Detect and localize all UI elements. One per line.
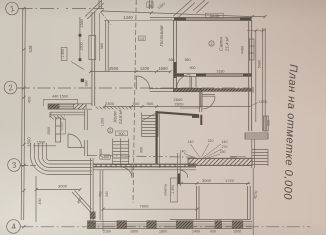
svg-text:900: 900 <box>190 66 196 70</box>
axis line row 3 <box>20 165 36 167</box>
svg-text:1500: 1500 <box>37 141 45 145</box>
svg-text:3: 3 <box>11 160 19 170</box>
svg-text:900: 900 <box>147 101 154 106</box>
right wall window <box>249 39 254 60</box>
bottom dim texts <box>103 230 241 234</box>
svg-text:1400: 1400 <box>192 230 200 234</box>
vertical dashed axis <box>133 0 136 203</box>
svg-text:1200: 1200 <box>101 118 105 126</box>
vestibule pier dark <box>90 212 96 220</box>
svg-text:1: 1 <box>211 42 213 46</box>
salon left wall pier <box>174 62 177 78</box>
top-left chamfer wall <box>85 1 104 20</box>
extension line 580 <box>99 13 101 61</box>
entrance porch left wall <box>99 0 102 9</box>
svg-text:230: 230 <box>220 150 226 154</box>
svg-text:21,4 м²: 21,4 м² <box>225 36 230 52</box>
stair B box 900 <box>116 131 128 136</box>
svg-text:5080: 5080 <box>258 60 262 68</box>
top wall right room dark piers <box>174 18 252 21</box>
vestibule right wall <box>85 110 88 130</box>
axis circle 1 <box>6 2 19 15</box>
hall top door arc <box>136 76 150 90</box>
svg-text:отметка: отметка <box>164 184 168 196</box>
stair A break diagonal <box>142 112 158 121</box>
svg-text:750: 750 <box>99 191 103 197</box>
lower door arc to stair B <box>121 167 132 178</box>
stair right dark wall <box>156 111 158 164</box>
stair wall light face <box>158 113 160 168</box>
wc wall horizontal <box>202 95 215 97</box>
right wall of building <box>249 20 252 131</box>
dark square node <box>81 79 84 82</box>
svg-text:1440: 1440 <box>123 15 133 20</box>
entrance step straight edges <box>31 166 37 190</box>
svg-text:-1.300: -1.300 <box>61 49 65 59</box>
vestibule lower walls <box>68 140 87 156</box>
svg-text:900: 900 <box>210 230 216 234</box>
svg-text:2100: 2100 <box>103 230 111 234</box>
svg-text:900: 900 <box>119 132 125 136</box>
bottom-right room right wall <box>248 186 251 220</box>
bottom wall piers <box>88 221 243 229</box>
dim line 3000 bottom-left <box>36 189 80 191</box>
corridor dark wall top <box>157 112 199 115</box>
svg-text:450: 450 <box>27 96 32 103</box>
wc line <box>180 107 200 109</box>
hatched wall band <box>188 158 252 165</box>
stair B rails <box>113 139 129 165</box>
right dim start ticks <box>247 29 266 32</box>
dim ticks b <box>180 182 250 185</box>
secondary vertical wall <box>106 20 109 72</box>
terrace lower line <box>93 169 196 171</box>
bottom-left vestibule wall A <box>90 158 93 229</box>
mid axis dash row3 right <box>87 155 195 157</box>
salon bottom window inner lines <box>206 75 243 76</box>
svg-text:2: 2 <box>6 83 14 93</box>
svg-text:06: 06 <box>148 4 152 8</box>
porch lower faint line <box>104 19 150 21</box>
hall dimension line <box>104 106 250 108</box>
dim 7000 line <box>103 208 197 210</box>
vestibule hatch <box>50 116 65 120</box>
svg-text:140: 140 <box>222 140 228 144</box>
svg-text:1720: 1720 <box>225 178 235 183</box>
wc wall vertical <box>200 92 202 107</box>
svg-text:240: 240 <box>105 191 109 197</box>
svg-text:4: 4 <box>10 222 18 232</box>
vertical dim line with ticks <box>79 17 81 61</box>
diagonal wall corner <box>72 191 92 212</box>
top wall right room <box>174 18 253 21</box>
dim 1500 with leader right <box>250 100 268 107</box>
svg-text:1450: 1450 <box>157 2 166 11</box>
corridor wall right hatch fill <box>200 89 252 92</box>
axis line row 1 <box>19 8 105 10</box>
wall B lower extension <box>102 220 104 231</box>
callout leaders <box>184 144 222 159</box>
svg-text:440 1500: 440 1500 <box>52 95 68 99</box>
corridor bottom wall dark <box>93 164 196 167</box>
window in central wall <box>89 36 96 60</box>
right window band horizontal <box>245 133 268 139</box>
interior wall hatch right part <box>95 106 133 109</box>
svg-text:7000: 7000 <box>140 203 150 208</box>
dim ext vertical <box>44 99 78 106</box>
elevation box 0.000 rotated <box>60 119 65 134</box>
wc dark stub horizontal <box>192 115 199 118</box>
interior dim ticks <box>89 70 172 73</box>
thick stub wall above room <box>178 174 180 185</box>
svg-text:1800: 1800 <box>159 230 167 234</box>
svg-text:3000: 3000 <box>202 178 212 183</box>
svg-text:2920: 2920 <box>175 102 185 107</box>
corridor wall dark segment <box>174 88 202 91</box>
small dim line2 <box>33 145 56 147</box>
corridor bottom wall ticks <box>96 164 190 166</box>
svg-text:380: 380 <box>85 81 89 87</box>
stair A rails <box>142 112 158 137</box>
corridor wall segment left <box>150 89 174 92</box>
vestibule left window bar <box>56 118 61 142</box>
top-right chamfer diagonal stair <box>174 0 209 19</box>
hall label <box>113 109 124 125</box>
svg-text:1690: 1690 <box>158 66 168 71</box>
dim text 4440 boxed <box>206 13 224 18</box>
right stair treads <box>252 150 268 167</box>
stair B treads <box>113 142 129 165</box>
svg-text:580: 580 <box>100 43 104 49</box>
svg-text:3180: 3180 <box>217 70 225 74</box>
hall number circle <box>108 128 113 133</box>
entrance curved steps <box>31 143 93 175</box>
elevation box 1.300 vertical <box>61 48 67 61</box>
axis tick marks left wall <box>22 7 25 229</box>
svg-text:1600: 1600 <box>130 230 138 234</box>
bottom-left vestibule wall B <box>100 170 103 220</box>
svg-text:2550: 2550 <box>109 66 119 71</box>
corridor wall right hatched <box>200 89 252 92</box>
axis circle 4 <box>7 220 21 234</box>
right wall window vertical <box>264 116 269 131</box>
svg-text:2: 2 <box>109 129 111 133</box>
svg-text:1500: 1500 <box>47 127 51 135</box>
bottom-left extension line <box>35 190 37 222</box>
callout texts cluster <box>180 139 237 160</box>
right wall lower <box>252 139 255 168</box>
svg-text:700: 700 <box>49 112 53 118</box>
chamfer axis diagonal <box>101 12 112 26</box>
svg-text:4460: 4460 <box>241 46 245 54</box>
salon door arc <box>177 75 190 89</box>
stair B lower box 1400 <box>100 155 110 160</box>
svg-text:900: 900 <box>267 120 271 126</box>
svg-text:300: 300 <box>140 147 144 153</box>
salon bottom wall piers <box>174 74 252 77</box>
interior dim line 2550/1200 <box>90 71 170 73</box>
window in interior wall <box>59 104 73 108</box>
wall between corridor and salon lower <box>199 92 202 113</box>
bottom-right room inner line <box>170 219 250 221</box>
svg-text:0,0: 0,0 <box>140 37 145 41</box>
central vertical wall upper <box>92 12 95 106</box>
room left wall upper <box>177 153 180 186</box>
svg-text:1380: 1380 <box>80 19 84 27</box>
interior wall pier dark <box>48 104 59 109</box>
dim ticks 3000 <box>35 188 82 191</box>
left dimension chain vertical lines <box>21 8 25 220</box>
interior wall pier dark 2 <box>73 104 86 109</box>
salon left wall <box>174 20 177 92</box>
elevation box bottom vertical <box>171 178 178 202</box>
hall dim ticks <box>103 105 202 108</box>
door leaf diagonal left room <box>71 62 84 70</box>
stair A treads <box>142 116 158 137</box>
interior wall below axis2 <box>48 104 92 109</box>
top wall window inner lines <box>186 18 240 19</box>
vestibule door arc <box>68 134 82 148</box>
svg-text:План на отметке 0,000: План на отметке 0,000 <box>281 64 299 201</box>
small elevation box mid <box>139 36 146 41</box>
dim line 3000/1720 <box>181 182 250 184</box>
vestibule top wall <box>50 112 85 115</box>
right dim line outer <box>263 28 266 131</box>
svg-text:1: 1 <box>9 4 16 14</box>
svg-text:0.000: 0.000 <box>60 122 64 131</box>
svg-text:Гостиная: Гостиная <box>159 25 164 47</box>
right vertical dim line bottom <box>252 168 254 235</box>
bottom wall line top <box>90 220 252 222</box>
svg-text:450: 450 <box>38 198 42 204</box>
svg-text:140: 140 <box>180 150 186 154</box>
entrance porch right wall <box>150 0 153 9</box>
svg-text:1500: 1500 <box>80 42 84 50</box>
right dim line inner <box>255 30 257 122</box>
svg-text:528: 528 <box>28 45 33 53</box>
svg-text:1400: 1400 <box>101 156 109 160</box>
axis circle 3 <box>8 159 21 172</box>
small dim line <box>44 98 78 100</box>
svg-text:900: 900 <box>133 101 140 106</box>
salon number circle <box>209 41 214 46</box>
svg-text:360: 360 <box>185 58 191 62</box>
terrace door arc <box>181 171 188 178</box>
rotated dims vestibule <box>76 191 109 204</box>
svg-text:-1.300: -1.300 <box>171 185 175 195</box>
dim line 1860 <box>230 156 246 158</box>
svg-text:270: 270 <box>222 145 228 149</box>
svg-text:4570: 4570 <box>254 190 259 199</box>
bottom-right room left wall <box>196 186 199 220</box>
svg-text:210: 210 <box>208 139 214 143</box>
top wall middle <box>150 18 174 21</box>
svg-text:2600: 2600 <box>174 97 184 102</box>
wc dark stub vertical <box>200 115 202 125</box>
svg-text:1200: 1200 <box>140 66 150 71</box>
axis line row 2 <box>17 87 250 89</box>
svg-text:380: 380 <box>251 87 255 93</box>
axis circle 2 <box>4 81 17 94</box>
axis line row 4 <box>20 226 310 228</box>
svg-text:3000: 3000 <box>58 184 68 189</box>
salon room label <box>219 36 230 52</box>
bottom wall window lines <box>94 224 252 226</box>
svg-text:1500: 1500 <box>259 100 267 104</box>
svg-text:140: 140 <box>188 140 194 144</box>
salon bottom wall <box>174 74 253 77</box>
svg-text:2300: 2300 <box>105 101 115 106</box>
top dimension line <box>102 11 265 17</box>
dim 7000 ticks <box>102 208 199 211</box>
small box porch right <box>147 2 153 8</box>
wc door arc <box>203 96 216 109</box>
svg-text:1000: 1000 <box>233 230 241 234</box>
top dim ticks <box>100 10 266 19</box>
svg-text:380: 380 <box>169 58 175 62</box>
bottom wall line bottom <box>90 227 252 229</box>
svg-text:24,8 м²: 24,8 м² <box>118 109 123 125</box>
door jamb wall <box>191 77 196 89</box>
